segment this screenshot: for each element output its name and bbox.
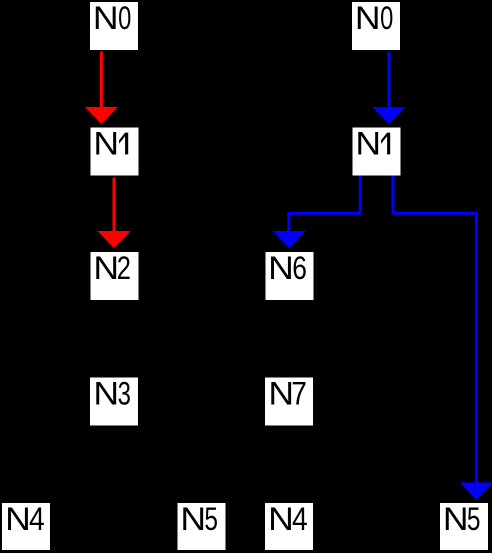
svg-text:N: N <box>93 251 119 287</box>
edge N1->N2 left tree (red arrow) <box>98 178 131 249</box>
node N5 (right tree) <box>440 502 488 550</box>
svg-text:4: 4 <box>29 502 45 537</box>
edge N0->N1 right tree (blue arrow) <box>372 52 405 125</box>
svg-text:N: N <box>355 126 381 162</box>
svg-text:N: N <box>268 376 294 412</box>
svg-text:N: N <box>93 376 119 412</box>
svg-text:N: N <box>180 502 206 538</box>
node N0 (left tree) <box>90 0 138 50</box>
edge N0->N1 left tree (red arrow) <box>85 52 118 125</box>
node N0 (right tree) <box>352 0 400 50</box>
svg-text:N: N <box>268 251 294 287</box>
svg-text:N: N <box>443 502 469 538</box>
node N4 (left tree) <box>2 502 50 550</box>
node N6 (right tree) <box>266 251 314 300</box>
svg-text:N: N <box>93 1 119 37</box>
svg-text:N: N <box>93 126 119 162</box>
svg-text:N: N <box>355 1 381 37</box>
edge N1->N6 right tree (blue bent arrow) <box>273 175 361 248</box>
svg-text:4: 4 <box>292 502 308 537</box>
node N5 (left tree) <box>178 502 226 550</box>
svg-text:3: 3 <box>118 375 131 411</box>
node N7 (right tree) <box>265 376 313 425</box>
node N2 (left tree) <box>91 251 139 300</box>
svg-text:7: 7 <box>291 377 307 412</box>
svg-text:2: 2 <box>117 251 131 286</box>
node N4 (right tree) <box>265 502 313 550</box>
edge N1->N5 right tree (blue bent arrow, long) <box>393 175 492 500</box>
svg-text:N: N <box>5 502 31 538</box>
node N1 (left tree) <box>91 126 139 175</box>
node N3 (left tree) <box>90 375 138 425</box>
svg-text:0: 0 <box>118 0 131 36</box>
svg-text:N: N <box>268 502 294 538</box>
svg-text:6: 6 <box>292 251 307 287</box>
node N1 (right tree) <box>353 126 401 175</box>
svg-text:5: 5 <box>467 502 481 538</box>
svg-text:5: 5 <box>204 502 218 538</box>
svg-text:0: 0 <box>380 0 393 36</box>
